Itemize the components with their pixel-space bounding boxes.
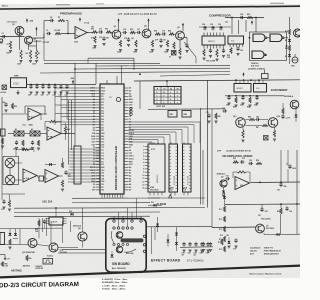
capacitor C32 bbox=[236, 47, 239, 49]
capacitor C28 under IC2 bbox=[209, 49, 212, 51]
resistor R25 shunt bbox=[166, 40, 168, 47]
wire bus 7 bbox=[160, 75, 230, 77]
capacitor C82 expander bbox=[255, 96, 258, 98]
wire IC6 chain bbox=[37, 176, 39, 179]
pins of connector header bbox=[70, 148, 74, 150]
resistor R4 bbox=[29, 50, 31, 59]
vertical wire right of rams x200 bbox=[200, 108, 202, 205]
ground under IC10 bbox=[16, 92, 19, 94]
supply arrow at compressor bbox=[251, 22, 253, 25]
wire table to bus bbox=[166, 81, 168, 87]
vertical wire right edge x288 bbox=[287, 150, 289, 166]
wire output rail top bbox=[212, 226, 256, 229]
resistor R24 series lpf bbox=[169, 33, 175, 35]
diode D11 on wire bbox=[154, 204, 157, 207]
wire IC5a out down bbox=[40, 114, 42, 120]
resistor R20 shunt bbox=[135, 40, 137, 47]
supply arrow +WB at Q4 bbox=[148, 20, 150, 23]
resistor R39 right ladder bbox=[289, 42, 291, 45]
diode D12 on mid wire bbox=[71, 213, 74, 216]
resistor R77 output bias bbox=[221, 239, 223, 245]
expander IC box right bbox=[254, 84, 267, 93]
vertical wire x151 to effect board label bbox=[151, 227, 153, 254]
resistor R50 upper left bbox=[11, 103, 13, 109]
resistor ladder right of sw board bbox=[223, 206, 225, 212]
wire DACR up bbox=[55, 208, 57, 217]
capacitor C81 expander bbox=[241, 96, 244, 98]
ram IC11 body bbox=[148, 144, 165, 192]
capacitor C48 supply bbox=[65, 85, 68, 87]
resistor R86 between bbox=[249, 118, 255, 120]
transistor Q13 expander bbox=[236, 118, 246, 128]
resistor network RM1 box bbox=[168, 111, 177, 118]
resistor R45 under switch bbox=[37, 140, 39, 146]
vertical wire x212 down to output bbox=[211, 109, 213, 228]
capacitor C55 right stack bbox=[64, 171, 67, 173]
capacitor C42 supply bbox=[41, 85, 44, 87]
potentiometer VR2 bbox=[292, 57, 298, 63]
wire down to compressor IC bbox=[231, 18, 233, 35]
transistor Q10 muting bbox=[28, 239, 37, 248]
pins bottom of IC2 bbox=[203, 45, 205, 49]
transistor Q5 lpf bbox=[176, 31, 185, 40]
capacitor C25 bbox=[211, 27, 214, 29]
resistor R60 left edge bbox=[8, 200, 10, 207]
transistor Q14 expander bbox=[268, 118, 278, 128]
vertical drops into muting bbox=[38, 218, 40, 239]
wire supply rail bbox=[27, 84, 97, 86]
flying lead wires in sw board bbox=[113, 243, 115, 245]
capacitor C57 left edge bbox=[2, 200, 5, 202]
feedback wire over IC5a bbox=[25, 105, 45, 107]
svg-text:M: MED(ADJ) 50ms - 200ms: M: MED(ADJ) 50ms - 200ms bbox=[102, 281, 127, 284]
capacitor C83 between bbox=[256, 118, 258, 121]
diode D6 right ladder bbox=[289, 51, 291, 54]
resistor R44 under switch bbox=[22, 140, 24, 146]
resistor R63 muting bbox=[9, 239, 11, 245]
wires from left section to IC7 pins bbox=[55, 87, 96, 89]
wire bus 5 bbox=[75, 67, 230, 70]
analog switch A1 box bbox=[14, 131, 19, 136]
vertical wire x281 mixer column bbox=[280, 150, 282, 182]
wire compressor to vco bbox=[225, 21, 228, 23]
pins left of IC11 bbox=[145, 146, 149, 148]
junction dots vco bbox=[249, 37, 251, 39]
nand gate IC8a bbox=[253, 34, 265, 42]
input jack bbox=[0, 39, 3, 42]
capacitor C93 at output bbox=[279, 183, 282, 185]
op-amp IC1 preemphasis bbox=[75, 27, 87, 39]
resistor R94 feedback mixer bbox=[237, 171, 246, 173]
diode ring bridge lower modulator circle bbox=[5, 175, 15, 185]
resistor R84 expander bbox=[249, 97, 251, 103]
wire vertical bus at x96 bbox=[95, 63, 97, 84]
regulator IC10 box bbox=[11, 78, 27, 88]
wire Q11 vertical connections bbox=[82, 208, 84, 232]
capacitor C97 bbox=[260, 208, 263, 210]
resistor R26 shunt bbox=[173, 42, 175, 49]
long bus wire above table bbox=[134, 80, 300, 81]
mode truth table grid bbox=[154, 87, 181, 105]
capacitor C73 output bbox=[234, 239, 237, 241]
diode D8 right bbox=[295, 115, 298, 118]
wire input to Q1 bbox=[0, 36, 25, 38]
resistor R68 left edge bbox=[1, 262, 3, 267]
transistor Q7 top right corner bbox=[294, 29, 302, 37]
supply arrow +WB distribution bbox=[72, 81, 74, 84]
bus wires above rams stepped bbox=[129, 121, 201, 123]
analog switch A2 box bbox=[30, 131, 35, 136]
diode D15a vertical x179 bbox=[175, 233, 178, 236]
op-amp IC6b A/D bbox=[45, 170, 59, 183]
compressor IC2 box bbox=[202, 36, 225, 45]
feedback loop wire over IC1 bbox=[43, 21, 45, 34]
diode D13 vertical bbox=[156, 224, 159, 227]
vertical wire x121 above IC7 bbox=[121, 65, 123, 84]
resistor R58 above IC6b bbox=[61, 162, 63, 168]
LED D16 muting bbox=[14, 233, 17, 236]
wire lpf bus 2 bbox=[44, 62, 160, 64]
diode D18 output bbox=[277, 233, 280, 236]
expander IC box M5207 left bbox=[234, 84, 251, 93]
ground under R4 R5 bbox=[29, 60, 32, 62]
long wire y202 bbox=[72, 201, 150, 203]
capacitor C66 bottom bbox=[182, 243, 185, 245]
bridge interconnect wires bbox=[9, 168, 11, 175]
wire left section rail bbox=[1, 150, 3, 200]
wire bus 6 bbox=[40, 72, 230, 74]
op-amp IC5b bbox=[47, 127, 61, 140]
wire Q13 Q14 link bbox=[246, 119, 250, 121]
svg-text:L: LONG 200ms - 800ms: L: LONG 200ms - 800ms bbox=[102, 285, 125, 287]
junction dots on expander bus bbox=[235, 79, 237, 81]
resistor R47 feedback IC5b bbox=[49, 120, 57, 122]
capacitor C44 supply bbox=[53, 85, 56, 87]
scan noise texture overlay bbox=[0, 0, 1, 1]
capacitor C40 supply bbox=[29, 85, 32, 87]
resistor R62 left of DACR bbox=[38, 220, 40, 226]
resistor R53 left edge bbox=[1, 138, 3, 144]
vertical wire x71 mid column bbox=[71, 100, 73, 150]
wire Q5 emitter chain down bbox=[179, 40, 181, 48]
wire lower rail y204 bbox=[225, 203, 300, 206]
resistor R23 shunt bbox=[151, 40, 153, 47]
main controller IC7 RDD63H101 body bbox=[100, 84, 124, 194]
crystal capacitor box under vco bbox=[262, 74, 269, 79]
transistor Q2 bbox=[25, 36, 33, 44]
resistor R88 right stack bbox=[282, 108, 284, 114]
stubs on IC7 top edge bbox=[106, 80, 108, 84]
long bus wire below table bbox=[148, 108, 225, 111]
resistor R31 under IC2 bbox=[216, 49, 218, 57]
op-amp IC6a A/D bbox=[23, 169, 37, 182]
vertical wire x140 to table area bbox=[139, 81, 141, 109]
IC7 bottom pin stubs bbox=[101, 194, 103, 198]
capacitor C70 bottom bbox=[206, 243, 209, 245]
capacitor C78 pre-expander bbox=[207, 114, 210, 116]
capacitor C69 bottom bbox=[200, 243, 203, 245]
wire vertical x280 to output diode bbox=[280, 214, 282, 234]
capacitor C72 bottom left cluster bbox=[209, 243, 212, 245]
wires entering sw board top bbox=[113, 217, 115, 220]
capacitor C13 series lpf bbox=[99, 30, 101, 33]
capacitor C67 bottom bbox=[188, 243, 191, 245]
pins top of expander ICs bbox=[235, 80, 237, 83]
capacitor C20 shunt bbox=[159, 39, 162, 41]
capacitor C30 bbox=[240, 16, 242, 19]
capacitor C47 supply bbox=[59, 85, 62, 87]
resistor R35 bbox=[230, 48, 232, 54]
capacitor C26 bbox=[219, 27, 222, 29]
capacitor C3 series bbox=[47, 32, 49, 35]
vertical wire right section bbox=[238, 20, 240, 34]
capacitor C46 under switch A2 bbox=[31, 141, 34, 143]
resistor R19 series lpf bbox=[130, 31, 136, 33]
long wire y207-208 bbox=[14, 207, 205, 210]
diode D9 above bbox=[49, 163, 52, 166]
resistor R87 between bbox=[262, 124, 268, 126]
diode D14 vertical bbox=[167, 240, 170, 243]
top border line of schematic frame bbox=[0, 6, 300, 9]
transistor Q11 upper muting bbox=[78, 232, 87, 241]
capacitor C41 supply bbox=[35, 85, 38, 87]
vertical wire right of rams x203 bbox=[202, 150, 204, 205]
wire lpf bottom bus bbox=[43, 34, 45, 61]
resistor R83 expander bbox=[235, 97, 237, 103]
resistor R14 shunt bbox=[94, 36, 96, 43]
zener diode top of ladder bbox=[223, 196, 226, 199]
capacitor C84 right stack bbox=[281, 115, 284, 117]
junction dot bus bbox=[139, 73, 141, 75]
resistor R59 right stack bbox=[61, 180, 63, 187]
diode D15 muting bbox=[9, 233, 12, 236]
pins top of IC2 bbox=[203, 33, 205, 37]
transistor Q18 output bbox=[256, 224, 265, 233]
DAC IC box DACR bbox=[49, 217, 63, 225]
resistor R16 series lpf bbox=[106, 31, 112, 33]
wire between switches bbox=[24, 133, 30, 135]
resistor R1 bbox=[9, 41, 11, 49]
wire bus 3 bbox=[88, 57, 134, 59]
vertical wire x68 mid column bbox=[68, 100, 70, 165]
comparator box S1 small bbox=[39, 176, 44, 181]
vertical stubs into ram tops bbox=[149, 142, 151, 144]
resistor R33 bbox=[247, 16, 253, 18]
photocoupler box at left edge bbox=[0, 233, 5, 245]
connector header box left of IC7 bbox=[74, 146, 81, 184]
title DD-2/3 CIRCUIT DIAGRAM bbox=[0, 281, 79, 289]
diode D5 right ladder bbox=[289, 35, 291, 39]
wire right ladder bbox=[289, 57, 291, 64]
left rail into muting y228 bbox=[0, 227, 62, 229]
capacitor C43 supply bbox=[47, 85, 50, 87]
wire vertical x297 to output bbox=[296, 204, 298, 234]
resistor R13 series lpf bbox=[92, 31, 98, 33]
capacitor C19 series lpf bbox=[162, 32, 164, 35]
capacitor C1 bbox=[2, 35, 4, 38]
vertical wire x155 bbox=[154, 227, 156, 240]
wire ram bottom rail bbox=[148, 197, 205, 199]
resistor R38 right ladder bbox=[288, 29, 290, 35]
diode ring bridge upper modulator circle bbox=[5, 158, 15, 168]
wire bus 4 bbox=[96, 64, 230, 67]
capacitor C79 pre-expander bbox=[223, 109, 225, 112]
connector box left edge modulation bbox=[1, 129, 6, 136]
capacitor C18 shunt bbox=[127, 38, 130, 40]
op-amp IC5a bbox=[28, 108, 41, 120]
capacitor C49 upper left bbox=[4, 103, 7, 105]
capacitor C4 feedback bbox=[50, 19, 52, 22]
capacitor C80 expander bbox=[227, 96, 230, 98]
wire vertical bus at x75 bbox=[74, 63, 76, 146]
pin stubs under rams bbox=[149, 192, 151, 196]
nand gate IC8b bbox=[270, 34, 282, 42]
supply arrow +WB at Q1 bbox=[26, 20, 28, 23]
capacitor C98 bbox=[285, 207, 288, 209]
nand gate IC8c bbox=[252, 51, 264, 59]
wire mixer output rail bbox=[251, 181, 301, 184]
wire Q2 emitter to resistors bbox=[28, 44, 30, 50]
diode D15b vertical x179 bbox=[175, 242, 178, 245]
svg-text:H: HOLD 200ms - 800ms: H: HOLD 200ms - 800ms bbox=[102, 289, 125, 291]
small circles on IC7 right pins bbox=[130, 107, 132, 109]
pads row in sw board bbox=[113, 220, 115, 222]
resistor R65 muting bbox=[26, 255, 28, 261]
resistor R6 series bbox=[55, 32, 61, 34]
capacitor C16 series lpf bbox=[123, 31, 125, 34]
IC7 left pin stubs with labels bbox=[96, 87, 101, 89]
resistor R80 pre-expander bbox=[215, 113, 217, 119]
IC7 right pin stubs with labels bbox=[124, 87, 129, 89]
capacitor C22 under Q5 bbox=[185, 44, 188, 46]
vertical long wire x207.5 bbox=[207, 80, 209, 207]
long wire y216 bbox=[14, 215, 150, 218]
pins bottom of IC3 bbox=[229, 44, 231, 47]
capacitor C68 bottom bbox=[194, 243, 197, 245]
transistor Q9 mixer input bbox=[220, 180, 227, 187]
svg-text:DD-2/3 CIRCUIT DIAGRAM: DD-2/3 CIRCUIT DIAGRAM bbox=[0, 281, 79, 289]
long wire y212 bbox=[14, 211, 160, 214]
supply arrow +WB at IC1 bbox=[79, 19, 81, 22]
transistor Q15 right edge bbox=[290, 100, 299, 109]
resistor R48 at IC5b out bbox=[64, 126, 66, 133]
compressor IC3 box bbox=[228, 36, 244, 44]
svg-text:S: SHORT(T) 12.5ms - 50ms: S: SHORT(T) 12.5ms - 50ms bbox=[102, 279, 127, 281]
transistor Q12 muting bbox=[49, 243, 58, 252]
long wire y198 bbox=[72, 197, 160, 199]
transformer T1 box bbox=[172, 51, 177, 56]
pads right edge of sw board bbox=[143, 235, 145, 237]
resistor R17 shunt bbox=[119, 40, 121, 47]
bottom border line of schematic frame bbox=[0, 266, 300, 278]
diode D17 in sw board bbox=[111, 255, 114, 258]
wire muting rail bbox=[0, 244, 28, 246]
supply arrow at Q2 collector bbox=[36, 28, 38, 31]
capacitor C94 right edge bbox=[288, 165, 291, 167]
resistor R3 bbox=[20, 50, 22, 59]
wire vco loop bbox=[250, 32, 287, 61]
resistor R89 under Q13 bbox=[242, 130, 244, 138]
wire compressor top rail bbox=[225, 17, 264, 19]
footswitch dark bar bbox=[121, 238, 144, 242]
wire vertical at x134 bbox=[133, 58, 135, 70]
capacitor C92 series bbox=[249, 162, 251, 165]
transistor Q17 sw board bbox=[116, 246, 123, 253]
vertical wire right edge x297 bbox=[296, 150, 298, 204]
pins of DACR bbox=[46, 218, 50, 220]
pulse waveform box bbox=[43, 259, 53, 265]
capacitor C71 bottom left cluster bbox=[202, 243, 205, 245]
zener D19 output bbox=[228, 241, 231, 244]
transistor Q3 lpf bbox=[112, 30, 121, 39]
diagonal wire Q5 to lower bus bbox=[184, 42, 196, 57]
ram IC12 body bbox=[169, 144, 178, 192]
resistor R90 under Q14 bbox=[273, 130, 275, 137]
ram IC13 body bbox=[183, 144, 192, 192]
resistor R5 bbox=[35, 50, 37, 59]
fuse X symbol at supply input bbox=[2, 85, 7, 90]
wire op-amp output bbox=[87, 32, 92, 34]
transistor Q4 lpf bbox=[142, 29, 151, 38]
capacitor C14 shunt bbox=[102, 37, 105, 39]
wire feedback over IC6a bbox=[16, 149, 34, 151]
diode D10 under Q9 bbox=[222, 191, 225, 194]
wire IC5a input left rail bbox=[1, 97, 3, 150]
resistor R22 series lpf bbox=[155, 33, 161, 35]
junction node at op-amp input bbox=[67, 33, 69, 35]
sw board outline rounded box bbox=[106, 219, 146, 273]
supply arrow +WB at Q5 bbox=[182, 24, 184, 27]
op-amp IC9 mixer bbox=[235, 177, 250, 190]
wire y226.8 sw board to right bbox=[147, 226, 213, 228]
capacitor C24 bbox=[203, 27, 206, 29]
trimmer box T2 bbox=[264, 136, 269, 141]
resistor R99 bbox=[280, 208, 282, 214]
ground under R1 bbox=[9, 50, 12, 52]
wire expander mid rail bbox=[225, 95, 284, 97]
wire IC5b output right bbox=[61, 133, 75, 135]
vertical wires left of IC7 bbox=[54, 88, 56, 125]
capacitor C29 under IC2 bbox=[222, 49, 225, 51]
wire compressor mid rail bbox=[199, 26, 231, 28]
arrow marks under ram IC11 bbox=[169, 195, 172, 198]
capacitor C90 mixer input bbox=[226, 177, 228, 180]
resistor R28 under Q5 bbox=[179, 48, 181, 55]
wires IC7 lower-left pins to header bbox=[81, 148, 100, 150]
pin-1 index circle on IC7 bbox=[116, 97, 120, 101]
wire Q2 output right bbox=[33, 37, 45, 39]
supply arrow at expander bbox=[243, 74, 245, 77]
bottom capacitor row rail bbox=[180, 246, 213, 249]
resistor R30 under IC2 bbox=[203, 49, 205, 56]
resistor R7 feedback bbox=[58, 19, 65, 21]
wire bracket left edge muting bbox=[0, 254, 5, 256]
wires muting to sw board bbox=[62, 248, 106, 250]
resistor R93 series bbox=[256, 162, 262, 164]
resistor network RM2 box bbox=[182, 111, 191, 118]
capacitor C17 series lpf bbox=[137, 31, 139, 34]
supply arrow +WB at Q3 bbox=[118, 20, 120, 23]
ground under R3 bbox=[19, 60, 22, 62]
transistor Q16 sw board bbox=[116, 232, 123, 239]
transistor Q1 bbox=[15, 26, 24, 35]
capacitor C58 left of DACR bbox=[43, 220, 46, 222]
capacitor C45 under switch A1 bbox=[15, 141, 18, 143]
